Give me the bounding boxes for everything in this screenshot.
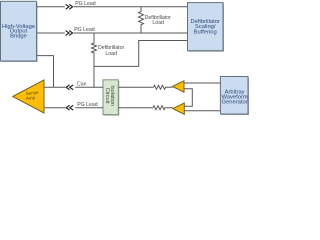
wire R2 bottom to scaling input — [94, 41, 188, 67]
wire PG lead B (second) — [37, 32, 188, 34]
block U2 Defibrillator Scaling/Buffering — [188, 3, 225, 52]
wire PG Lead (sense amp bottom input) — [44, 107, 103, 109]
op-amp A1 Sense Amp — [13, 80, 44, 113]
svg-text:Generator: Generator — [222, 99, 248, 105]
block U3 Arbitray Waveform Generator — [220, 77, 249, 116]
resistor R4 (bottom row horizontal) — [153, 106, 173, 110]
svg-text:Amp: Amp — [26, 95, 36, 101]
wire buffer A2 output to waveform generator — [184, 82, 220, 84]
connector chevrons >> on wire A — [66, 4, 73, 9]
svg-text:PG Lead: PG Lead — [75, 1, 96, 7]
wire feedback bracket between buffers — [184, 89, 192, 107]
block U1 High-Voltage Output Bridge — [1, 1, 38, 62]
resistor R2 Defibrillator Load (from wire B down) — [92, 33, 97, 87]
resistor R1 Defibrillator Load (between wire A and wire B) — [139, 7, 144, 33]
connector chevrons >> on wire B — [66, 31, 73, 36]
wire isolation to resistor R3 (top row) — [118, 86, 153, 88]
wire Can (sense amp top input) — [44, 86, 103, 88]
svg-text:Can: Can — [77, 81, 87, 87]
svg-text:Bridge: Bridge — [10, 34, 27, 40]
resistor R3 (top row horizontal) — [154, 85, 173, 89]
svg-text:Circuit: Circuit — [104, 88, 110, 104]
svg-text:Buffering: Buffering — [194, 29, 217, 35]
wire bridge bottom to sense amp input — [37, 56, 54, 88]
wire PG lead A (top) — [37, 6, 188, 8]
connector chevrons << on wire Can — [66, 85, 73, 90]
wire isolation to resistor R4 (bottom row) — [118, 107, 153, 109]
svg-text:PG Lead: PG Lead — [74, 27, 95, 33]
svg-text:Load: Load — [152, 20, 164, 26]
block U4 Isolation Circuit — [103, 80, 119, 116]
svg-text:Load: Load — [105, 51, 117, 57]
op-amp A2 buffer (top) — [173, 81, 185, 92]
op-amp A3 buffer (bottom) — [173, 103, 185, 114]
svg-text:PG Lead: PG Lead — [77, 102, 98, 108]
connector chevrons << on bottom PG Lead — [66, 105, 73, 110]
wire buffer A3 output to waveform generator — [184, 110, 220, 112]
